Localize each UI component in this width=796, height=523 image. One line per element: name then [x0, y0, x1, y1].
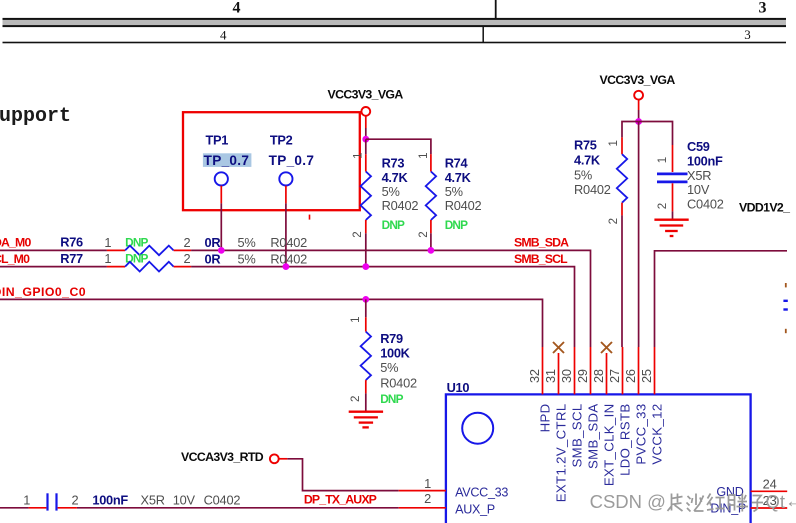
sheet border zone tick top — [495, 0, 497, 19]
svg-text:R0402: R0402 — [380, 375, 417, 390]
wire VDD1V2 to pin 25 — [655, 251, 788, 347]
TP2 pin stub — [285, 186, 287, 204]
svg-text:5%: 5% — [238, 235, 256, 250]
resistor R74 pin 2 — [430, 220, 432, 233]
svg-text:1: 1 — [353, 153, 365, 159]
svg-text:VCC3V3_VGA: VCC3V3_VGA — [328, 88, 404, 102]
wire power to junction 2 — [638, 110, 640, 122]
U10 pin 30 stub — [574, 347, 576, 394]
testpoint box — [183, 112, 360, 210]
testpoint TP2 pad — [279, 172, 292, 185]
edge fragment pin stub bottom — [785, 329, 787, 333]
U10 pin 27 stub — [622, 347, 624, 394]
svg-text:1: 1 — [104, 235, 111, 250]
svg-text:5%: 5% — [382, 184, 400, 199]
no-connect X pin 31 — [553, 342, 564, 353]
sheet border zone tick bottom — [482, 27, 484, 43]
wire junction to pin 26 — [638, 122, 640, 348]
svg-text:SMB_SCL: SMB_SCL — [514, 252, 568, 266]
svg-text:1: 1 — [424, 476, 431, 491]
svg-text:1: 1 — [418, 153, 430, 159]
svg-text:4: 4 — [233, 0, 241, 16]
resistor R76 body — [125, 246, 174, 256]
capacitor pin 1 stub — [29, 507, 47, 509]
svg-text:100nF: 100nF — [687, 154, 723, 169]
resistor R74 body — [426, 172, 436, 221]
resistor R77 pin 1 — [107, 266, 125, 268]
svg-text:1: 1 — [657, 157, 669, 163]
wire R73 to SCL row — [365, 233, 367, 266]
svg-text:1: 1 — [23, 493, 30, 508]
resistor R73 pin 2 — [365, 220, 367, 233]
U10 pin 1 stub — [399, 490, 446, 492]
wire VCCA to pin 1 — [287, 459, 398, 491]
svg-text:R79: R79 — [380, 331, 403, 346]
wire junction down — [365, 139, 367, 154]
svg-text:C59: C59 — [687, 139, 710, 154]
wire TP1 to SDA row — [220, 203, 222, 250]
svg-text:R0402: R0402 — [270, 251, 307, 266]
svg-text:5%: 5% — [238, 251, 256, 266]
U10 pin 24 stub — [751, 490, 788, 492]
svg-text:2: 2 — [183, 251, 190, 266]
svg-text:0R: 0R — [205, 251, 221, 266]
wire TP2 to SCL row — [285, 203, 287, 266]
no-connect X pin 28 — [601, 342, 612, 353]
U10 pin 29 stub — [590, 347, 592, 394]
wire AUX to pin 2 — [77, 507, 399, 509]
svg-text:EXT_CLK_IN: EXT_CLK_IN — [601, 404, 616, 487]
power pin stub 2 — [638, 100, 640, 110]
svg-text:1: 1 — [104, 251, 111, 266]
svg-text:R0402: R0402 — [445, 198, 482, 213]
sheet border thick bar — [3, 18, 787, 27]
svg-text:29: 29 — [575, 369, 590, 383]
wire SDA left — [0, 249, 107, 251]
node junction VCC right — [635, 118, 642, 125]
svg-text:10V: 10V — [687, 182, 710, 197]
wire junction to R75 — [622, 122, 639, 138]
svg-text:CL_M0: CL_M0 — [0, 252, 30, 266]
svg-text:0R: 0R — [205, 235, 221, 250]
testpoint TP1 pad — [215, 172, 228, 185]
capacitor plates bottom-left — [48, 493, 57, 510]
svg-text:100K: 100K — [380, 345, 410, 360]
capacitor pin 2 stub — [58, 507, 77, 509]
wire R74 to SDA row — [430, 233, 432, 250]
svg-text:VCC3V3_VGA: VCC3V3_VGA — [600, 73, 676, 87]
resistor R75 body — [617, 154, 627, 203]
svg-text:2: 2 — [657, 203, 669, 209]
VCCA pin stub — [279, 458, 288, 460]
node R74 junction — [428, 247, 435, 254]
svg-text:2: 2 — [608, 218, 620, 224]
resistor R74 pin 1 — [430, 154, 432, 171]
svg-text:HPD: HPD — [537, 404, 552, 433]
svg-text:4.7K: 4.7K — [382, 170, 409, 185]
U10 pin 28 stub — [606, 353, 608, 394]
svg-text:TP_0.7: TP_0.7 — [269, 153, 315, 168]
resistor R76 pin 1 — [107, 249, 125, 251]
svg-text:C0402: C0402 — [204, 493, 241, 508]
power pin stub — [365, 116, 367, 128]
wire junction to R79 — [365, 299, 367, 317]
resistor R77 body — [125, 262, 174, 272]
svg-text:R77: R77 — [60, 251, 83, 266]
resistor R75 pin 1 — [621, 137, 623, 154]
resistor R75 pin 2 — [621, 203, 623, 216]
resistor R76 pin 2 — [174, 249, 192, 251]
node TP1 junction — [218, 247, 225, 254]
ground C59 — [654, 220, 688, 236]
svg-text:27: 27 — [607, 369, 622, 383]
svg-text:1: 1 — [350, 317, 362, 323]
svg-text:TP2: TP2 — [270, 132, 293, 147]
TP1 pin stub — [220, 186, 222, 204]
sheet border inner line — [3, 42, 787, 44]
svg-text:10V: 10V — [173, 493, 196, 508]
wire SCL row to pin 30 — [191, 267, 574, 347]
svg-text:DNP: DNP — [380, 392, 403, 406]
wire SCL left — [0, 266, 107, 268]
capacitor C59 plates — [657, 174, 688, 182]
svg-text:SMB_SDA: SMB_SDA — [514, 236, 569, 250]
wire GPIO row to pin 32 — [0, 299, 543, 347]
svg-text:EXT1.2V_CTRL: EXT1.2V_CTRL — [553, 404, 568, 503]
svg-text:U10: U10 — [447, 380, 470, 395]
svg-text:R74: R74 — [445, 156, 469, 171]
svg-text:R0402: R0402 — [574, 182, 611, 197]
svg-text:TP1: TP1 — [206, 132, 229, 147]
edge fragment capacitor plates — [783, 301, 787, 310]
svg-text:1: 1 — [608, 140, 620, 146]
svg-text:←: ← — [785, 490, 796, 511]
svg-text:DNP: DNP — [382, 218, 405, 232]
resistor R79 body — [361, 332, 371, 381]
svg-text:25: 25 — [639, 369, 654, 383]
tiny red artifact — [309, 215, 311, 220]
svg-text:DA_M0: DA_M0 — [0, 236, 31, 250]
svg-text:R0402: R0402 — [270, 235, 307, 250]
svg-text:AUX_P: AUX_P — [455, 503, 495, 517]
svg-text:2: 2 — [418, 232, 430, 238]
svg-text:Qt: Qt — [766, 491, 786, 512]
svg-text:5%: 5% — [380, 360, 398, 375]
svg-text:X5R: X5R — [687, 168, 711, 183]
svg-text:R76: R76 — [60, 235, 83, 250]
svg-text:4: 4 — [220, 28, 227, 43]
svg-text:R0402: R0402 — [382, 198, 419, 213]
U10 pin 31 stub — [558, 353, 560, 394]
svg-text:SMB_SDA: SMB_SDA — [585, 404, 600, 469]
svg-text:3: 3 — [744, 27, 751, 42]
ground R79 — [349, 412, 383, 428]
svg-text:VDD1V2_: VDD1V2_ — [739, 200, 790, 214]
svg-text:5%: 5% — [445, 184, 463, 199]
svg-text:4.7K: 4.7K — [445, 170, 472, 185]
resistor R73 pin 1 — [365, 154, 367, 171]
svg-text:DNP: DNP — [445, 218, 468, 232]
wire junction to R74 top — [366, 139, 431, 154]
svg-text:3: 3 — [759, 0, 767, 16]
svg-text:2: 2 — [352, 232, 364, 238]
resistor R73 body — [361, 172, 371, 221]
svg-text:TP_0.7: TP_0.7 — [204, 153, 250, 168]
node TP2 junction — [283, 263, 290, 270]
resistor R79 pin 2 — [365, 380, 367, 393]
U10 pin 25 stub — [654, 347, 656, 394]
svg-text:2: 2 — [72, 493, 79, 508]
capacitor pin 1 wire — [0, 507, 29, 509]
wire C59 to ground — [672, 211, 674, 218]
svg-text:X5R: X5R — [141, 493, 165, 508]
svg-text:AVCC_33: AVCC_33 — [455, 485, 508, 499]
wire SDA row to pin 29 — [191, 250, 590, 347]
U10 pin 26 stub — [638, 347, 640, 394]
svg-text:31: 31 — [543, 369, 558, 383]
svg-text:R75: R75 — [574, 138, 597, 153]
svg-text:5%: 5% — [574, 168, 592, 183]
svg-text:R73: R73 — [382, 156, 405, 171]
svg-text:32: 32 — [527, 369, 542, 383]
IC U10 body — [446, 394, 751, 523]
svg-text:24: 24 — [763, 476, 777, 491]
node junction R73/R74 — [362, 136, 369, 143]
svg-text:100nF: 100nF — [92, 493, 128, 508]
svg-text:28: 28 — [591, 369, 606, 383]
svg-text:VCCK_12: VCCK_12 — [649, 404, 664, 465]
U10 pin 23 stub — [751, 507, 788, 509]
svg-text:CSDN @: CSDN @ — [590, 491, 666, 512]
wire power to junction — [365, 128, 367, 139]
resistor R77 pin 2 — [174, 266, 192, 268]
svg-text:2: 2 — [350, 396, 362, 402]
svg-text:2: 2 — [424, 491, 431, 506]
IC U10 index circle — [462, 413, 493, 444]
svg-text:26: 26 — [623, 369, 638, 383]
svg-text:4.7K: 4.7K — [574, 153, 601, 168]
svg-text:upport: upport — [0, 105, 71, 128]
svg-text:SMB_SCL: SMB_SCL — [569, 404, 584, 468]
svg-text:DIN_GPIO0_C0: DIN_GPIO0_C0 — [0, 285, 86, 299]
resistor R79 pin 1 — [365, 317, 367, 331]
capacitor C59 pin 1 — [672, 145, 674, 172]
svg-text:30: 30 — [559, 369, 574, 383]
node R73 junction — [362, 263, 369, 270]
edge fragment pin stub top — [785, 283, 787, 287]
wire junction to C59 — [639, 122, 673, 146]
svg-text:2: 2 — [183, 235, 190, 250]
svg-text:DP_TX_AUXP: DP_TX_AUXP — [304, 492, 377, 506]
watermark CSDN — [590, 490, 796, 512]
TP_0.7 highlight — [203, 153, 252, 167]
U10 pin 32 stub — [542, 347, 544, 394]
svg-text:PVCC_33: PVCC_33 — [633, 404, 648, 465]
wire R79 to ground — [365, 393, 367, 410]
node R79 junction — [362, 296, 369, 303]
svg-text:C0402: C0402 — [687, 197, 724, 212]
svg-text:VCCA3V3_RTD: VCCA3V3_RTD — [181, 450, 264, 464]
wire R75 to pin 27 — [621, 215, 623, 347]
U10 pin 2 stub — [399, 507, 446, 509]
capacitor C59 pin 2 — [672, 183, 674, 211]
svg-text:LDO_RSTB: LDO_RSTB — [617, 404, 632, 476]
